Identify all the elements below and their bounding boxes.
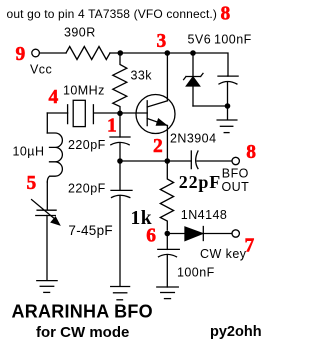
wire: cap node to emitter node 2 bbox=[120, 160, 167, 162]
wire: node 1 to transistor base bbox=[120, 112, 147, 114]
svg-text:220pF: 220pF bbox=[68, 182, 106, 196]
wire: junction to ground bbox=[227, 106, 229, 120]
node 6 junction dot bbox=[165, 231, 171, 237]
trimmer capacitor 7-45pF bbox=[32, 200, 60, 280]
wire: zener bottom to cap bottom bbox=[193, 105, 228, 107]
svg-text:2: 2 bbox=[153, 136, 163, 157]
ground (left, trimmer) bbox=[37, 281, 57, 293]
svg-text:1N4148: 1N4148 bbox=[181, 208, 228, 222]
svg-text:BFO: BFO bbox=[222, 167, 249, 181]
svg-text:ARARINHA BFO: ARARINHA BFO bbox=[12, 302, 153, 322]
svg-text:3: 3 bbox=[157, 31, 167, 52]
wire: node 6 to diode bbox=[167, 233, 185, 235]
svg-text:out go to pin 4 TA7358 (VFO c: out go to pin 4 TA7358 (VFO connect.) bbox=[7, 7, 218, 21]
resistor 390R bbox=[66, 47, 110, 60]
wire: collector up to node 3 bbox=[166, 53, 168, 101]
wire: node 3 to zener top bbox=[167, 52, 193, 54]
svg-text:220pF: 220pF bbox=[68, 138, 106, 152]
wire: 390R to node A (top of 33k) bbox=[110, 52, 120, 54]
svg-text:7-45pF: 7-45pF bbox=[68, 223, 113, 238]
resistor 1k bbox=[160, 161, 173, 230]
wire: zener top to 100nF top, bend down bbox=[193, 53, 228, 76]
capacitor 220pF (lower) bbox=[111, 161, 132, 286]
capacitor 100nF (rail bypass) bbox=[218, 76, 238, 106]
svg-text:10µH: 10µH bbox=[13, 145, 45, 159]
svg-text:10MHz: 10MHz bbox=[63, 84, 105, 98]
svg-text:100nF: 100nF bbox=[214, 33, 252, 47]
resistor 33k bbox=[113, 53, 127, 111]
svg-text:2N3904: 2N3904 bbox=[170, 132, 217, 146]
svg-text:22pF: 22pF bbox=[179, 172, 221, 192]
svg-text:1: 1 bbox=[107, 116, 117, 137]
wire: coil bottom to trimmer bbox=[46, 182, 48, 209]
svg-text:py2ohh: py2ohh bbox=[210, 324, 262, 340]
svg-text:33k: 33k bbox=[131, 69, 153, 83]
wire: emitter down to node 2 bbox=[166, 126, 168, 162]
svg-text:100nF: 100nF bbox=[177, 266, 215, 280]
wire: crystal right plate to node 1 bbox=[94, 112, 120, 114]
crystal 10MHz bbox=[47, 100, 93, 126]
svg-text:5V6: 5V6 bbox=[188, 33, 212, 47]
svg-text:8: 8 bbox=[221, 4, 231, 25]
svg-text:Vcc: Vcc bbox=[30, 63, 52, 77]
ground (middle, 220pF) bbox=[111, 287, 130, 300]
terminal 7 CW key bbox=[232, 230, 239, 237]
svg-text:390R: 390R bbox=[64, 26, 96, 40]
node A junction dot (top of 33k) bbox=[118, 50, 124, 56]
svg-text:4: 4 bbox=[49, 87, 59, 108]
svg-text:CW key: CW key bbox=[200, 247, 247, 261]
node between 220pF caps bbox=[117, 158, 123, 164]
svg-text:5: 5 bbox=[27, 173, 37, 194]
transistor Q1 2N3904 bbox=[136, 95, 175, 134]
capacitor 100nF (key bypass) bbox=[158, 234, 180, 288]
node 2 junction dot bbox=[165, 158, 171, 164]
node: zener top junction dot bbox=[190, 50, 196, 56]
wire: crystal left lead down to coil bbox=[46, 113, 48, 133]
ground (below key 100nF) bbox=[157, 287, 179, 299]
zener diode 5V6 bbox=[184, 53, 203, 106]
node: rail bypass ground junction dot bbox=[225, 103, 231, 109]
wire: Vcc rail terminal 9 to 390R bbox=[40, 52, 67, 54]
svg-text:8: 8 bbox=[246, 142, 256, 163]
capacitor 220pF (upper) bbox=[110, 113, 130, 158]
svg-text:6: 6 bbox=[146, 226, 156, 247]
terminal 9 Vcc bbox=[32, 49, 40, 57]
terminal 8 BFO OUT bbox=[232, 157, 239, 164]
svg-text:for CW mode: for CW mode bbox=[36, 324, 129, 341]
diode 1N4148 bbox=[185, 227, 232, 241]
node 3 junction dot bbox=[165, 50, 171, 56]
svg-text:9: 9 bbox=[16, 44, 26, 65]
wire: node A to node 3 bbox=[120, 52, 167, 54]
node 1 junction dot bbox=[117, 111, 123, 117]
ground (top right) bbox=[217, 120, 237, 133]
capacitor 22pF bbox=[167, 151, 232, 169]
svg-text:OUT: OUT bbox=[222, 180, 250, 194]
inductor 10uH bbox=[47, 133, 62, 182]
